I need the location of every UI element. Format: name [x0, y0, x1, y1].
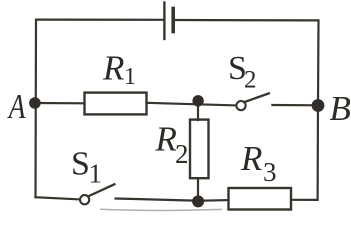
- wire: switch S1 to bottom junction: [116, 199, 198, 201]
- svg-text:A: A: [7, 87, 26, 126]
- wire bottom-left: bottom-left corner to switch S1: [36, 197, 80, 199]
- middle junction node (R1/R2/S2): [192, 95, 203, 106]
- svg-text:2: 2: [244, 67, 257, 94]
- scan artifact: faint curve near bottom edge: [100, 209, 222, 210]
- wire: R3 right lead to bottom-right corner up to node B: [291, 105, 318, 200]
- svg-text:R: R: [240, 139, 262, 178]
- label R2: [155, 120, 189, 170]
- svg-text:R: R: [155, 120, 177, 159]
- wire: switch S2 to node B: [272, 104, 318, 107]
- wire: node A to resistor R1 left lead: [35, 102, 85, 105]
- label R3: [240, 139, 277, 187]
- wire: R1 right lead to middle junction and on to switch S2: [147, 103, 236, 106]
- svg-text:1: 1: [89, 159, 103, 189]
- resistor R2: [190, 120, 209, 179]
- resistor R1: [85, 93, 147, 115]
- svg-text:3: 3: [263, 157, 277, 187]
- node B (junction dot): [312, 99, 325, 112]
- node A (junction dot): [29, 97, 41, 109]
- bottom junction node (S1/R2/R3): [192, 195, 204, 207]
- wire: R2 bottom lead down to bottom junction: [197, 178, 199, 200]
- label R1: [102, 49, 136, 91]
- label S1: [71, 145, 102, 188]
- label S2: [228, 50, 257, 94]
- wire top-left: left vertical rail from top corner down to bottom corner through node A: [34, 20, 37, 198]
- wire top-right: battery negative plate to top-right corner down to node B: [175, 20, 319, 105]
- battery: [164, 3, 173, 40]
- switch S2: [236, 93, 268, 110]
- svg-text:S: S: [71, 145, 90, 182]
- svg-text:1: 1: [124, 64, 136, 90]
- svg-text:2: 2: [175, 139, 189, 169]
- svg-text:B: B: [330, 89, 351, 128]
- wire: bottom junction to resistor R3 left lead: [198, 199, 229, 202]
- wire: middle junction down to resistor R2: [197, 101, 199, 120]
- wire top: top-left corner to battery positive plate: [36, 19, 163, 21]
- resistor R3: [229, 188, 292, 210]
- svg-text:R: R: [102, 49, 124, 88]
- switch S1: [80, 184, 114, 204]
